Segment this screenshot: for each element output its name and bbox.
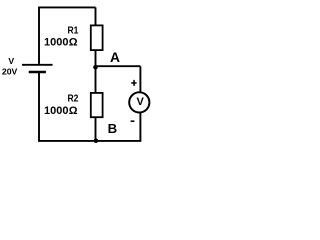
- svg-text:1000: 1000: [44, 105, 68, 117]
- svg-text:A: A: [110, 50, 120, 65]
- svg-text:B: B: [108, 121, 118, 136]
- svg-text:20V: 20V: [2, 66, 18, 76]
- svg-text:Ω: Ω: [69, 105, 78, 117]
- svg-text:R1: R1: [68, 25, 79, 36]
- svg-text:1000: 1000: [44, 36, 68, 48]
- svg-text:V: V: [137, 96, 145, 108]
- svg-text:R2: R2: [68, 93, 79, 104]
- svg-text:V: V: [8, 56, 14, 66]
- svg-text:Ω: Ω: [69, 36, 78, 48]
